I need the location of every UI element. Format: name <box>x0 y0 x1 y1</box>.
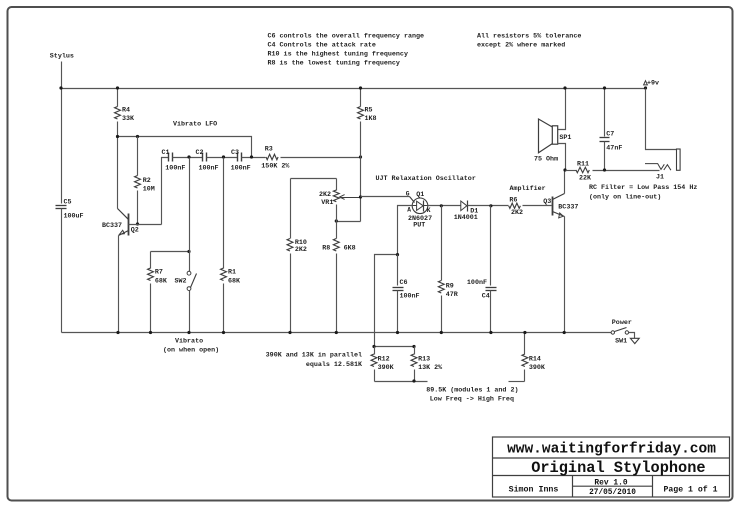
capacitor C6 <box>397 255 399 286</box>
svg-text:Original Stylophone: Original Stylophone <box>531 459 705 477</box>
wire R3 to R5 node <box>281 157 361 159</box>
svg-text:100uF: 100uF <box>64 213 84 221</box>
svg-text:C6 controls the overall freque: C6 controls the overall frequency range <box>268 33 425 41</box>
wire VR1 top link <box>291 178 337 180</box>
svg-text:J1: J1 <box>656 174 664 182</box>
wire D1 to R6 <box>468 205 509 207</box>
wire R5 bottom to VR1 bottom <box>337 221 361 223</box>
svg-text:Low Freq -> High Freq: Low Freq -> High Freq <box>430 396 514 404</box>
jack J1 <box>677 149 681 170</box>
svg-text:Vibrato LFO: Vibrato LFO <box>173 121 217 129</box>
wire speaker top <box>558 89 566 130</box>
svg-text:100nF: 100nF <box>231 165 251 173</box>
wire Q3 emitter to rail <box>564 217 566 333</box>
resistor R3 <box>266 154 278 159</box>
capacitor C2 <box>202 153 204 162</box>
svg-text:Page 1 of 1: Page 1 of 1 <box>663 485 717 495</box>
svg-text:PUT: PUT <box>413 222 425 230</box>
wire Q2 base line <box>129 224 162 226</box>
svg-text:BC337: BC337 <box>558 204 578 212</box>
svg-text:1N4001: 1N4001 <box>454 214 478 222</box>
wire stylus vertical upper <box>61 62 63 204</box>
svg-text:2K2: 2K2 <box>511 209 523 217</box>
svg-text:1K8: 1K8 <box>365 115 377 123</box>
capacitor C3 <box>237 153 239 162</box>
svg-text:(only on line-out): (only on line-out) <box>589 194 661 202</box>
svg-text:SW2: SW2 <box>175 278 187 286</box>
svg-text:All resistors 5% tolerance: All resistors 5% tolerance <box>477 33 581 41</box>
resistor R2 <box>137 137 139 176</box>
svg-text:R1: R1 <box>228 269 236 277</box>
switch SW2 <box>189 158 191 272</box>
resistor R14 <box>524 333 526 355</box>
svg-text:390K: 390K <box>378 364 395 372</box>
svg-text:Amplifier: Amplifier <box>510 185 546 193</box>
svg-text:R2: R2 <box>143 177 151 185</box>
svg-text:75 Ohm: 75 Ohm <box>534 156 558 164</box>
svg-text:47nF: 47nF <box>606 144 622 152</box>
svg-text:Q1: Q1 <box>416 191 424 199</box>
svg-text:R14: R14 <box>529 356 541 364</box>
svg-text:C2: C2 <box>196 149 204 157</box>
svg-text:390K: 390K <box>529 364 546 372</box>
svg-text:R10 is the highest tuning freq: R10 is the highest tuning frequency <box>268 51 408 59</box>
svg-text:68K: 68K <box>155 278 168 286</box>
resistor R8 <box>336 222 338 239</box>
resistor R13 <box>414 347 416 355</box>
svg-text:C4: C4 <box>482 293 490 301</box>
diode D1 1N4001 <box>461 201 467 211</box>
svg-text:100nF: 100nF <box>467 279 487 287</box>
capacitor C4 <box>490 206 492 286</box>
svg-text:89.5K (modules 1 and 2): 89.5K (modules 1 and 2) <box>426 387 518 395</box>
wire LFO feedback line <box>118 137 252 158</box>
svg-text:R12: R12 <box>378 356 390 364</box>
node A timing wire <box>375 255 398 347</box>
svg-text:100nF: 100nF <box>199 165 219 173</box>
svg-text:www.waitingforfriday.com: www.waitingforfriday.com <box>507 442 716 458</box>
switch SW1 <box>611 331 614 334</box>
resistor R5 <box>360 89 362 107</box>
resistor R4 <box>117 89 119 107</box>
wire gate line <box>361 196 410 198</box>
svg-text:C1: C1 <box>162 149 170 157</box>
wire ladder bottom stub left <box>375 381 428 383</box>
power +9v <box>644 81 648 85</box>
wire R7-SW2 link <box>151 251 190 253</box>
svg-text:R8 is the lowest tuning freque: R8 is the lowest tuning frequency <box>268 60 400 68</box>
resistor R1 <box>223 158 225 269</box>
svg-text:6K8: 6K8 <box>344 245 356 253</box>
svg-text:27/05/2010: 27/05/2010 <box>589 489 636 497</box>
resistor R6 <box>509 203 521 208</box>
svg-text:except 2% where marked: except 2% where marked <box>477 42 565 50</box>
ground <box>629 333 635 339</box>
svg-text:33K: 33K <box>122 115 135 123</box>
svg-text:BC337: BC337 <box>102 222 122 230</box>
svg-text:+9v: +9v <box>647 80 659 88</box>
svg-text:2K2: 2K2 <box>319 191 331 199</box>
svg-text:100nF: 100nF <box>165 165 185 173</box>
svg-text:G: G <box>406 191 410 198</box>
svg-text:A: A <box>407 207 411 214</box>
capacitor C7 <box>604 89 606 137</box>
svg-text:22K: 22K <box>579 175 592 183</box>
svg-text:C4 Controls the attack rate: C4 Controls the attack rate <box>268 42 376 50</box>
svg-text:R9: R9 <box>446 283 454 291</box>
svg-text:C3: C3 <box>231 149 239 157</box>
svg-text:13K 2%: 13K 2% <box>418 364 443 372</box>
svg-text:VR1: VR1 <box>321 199 333 207</box>
transistor Q2 BC337 <box>128 214 130 236</box>
svg-text:Stylus: Stylus <box>50 53 74 61</box>
wire speaker bottom <box>558 144 566 171</box>
transistor Q1 2N6027 PUT <box>412 198 428 214</box>
capacitor C5 <box>56 205 67 207</box>
svg-text:Q3: Q3 <box>543 198 551 206</box>
svg-text:UJT Relaxation Oscillator: UJT Relaxation Oscillator <box>376 175 476 183</box>
wire +9v to jack sleeve <box>646 89 677 150</box>
resistor R9 <box>441 206 443 281</box>
wire R6 to Q3 base <box>523 205 552 207</box>
wire Q3 collector <box>564 171 566 194</box>
capacitor C1 <box>168 153 170 162</box>
svg-text:390K and 13K in parallel: 390K and 13K in parallel <box>266 352 362 360</box>
svg-text:C5: C5 <box>64 199 72 207</box>
svg-text:R6: R6 <box>509 197 517 205</box>
svg-text:10M: 10M <box>143 186 155 194</box>
svg-text:Simon Inns: Simon Inns <box>509 485 559 495</box>
title block <box>493 437 730 497</box>
svg-text:R7: R7 <box>155 269 163 277</box>
svg-text:Power: Power <box>612 319 632 327</box>
wire tuning ladder top <box>375 346 415 348</box>
resistor R11 <box>566 170 577 172</box>
wire Q1 cathode to D1 <box>428 205 461 207</box>
svg-text:equals 12.581K: equals 12.581K <box>306 361 363 369</box>
svg-text:2K2: 2K2 <box>295 246 307 254</box>
wire top rail +9v <box>62 88 646 90</box>
svg-text:SW1: SW1 <box>615 338 627 346</box>
svg-text:68K: 68K <box>228 278 241 286</box>
wire Q2 emitter to rail <box>118 236 120 333</box>
wire C2-C3 <box>207 157 238 159</box>
svg-text:Vibrato: Vibrato <box>175 338 203 346</box>
wire C3-R3 <box>242 157 266 159</box>
svg-text:SP1: SP1 <box>559 134 571 142</box>
wire bottom rail <box>62 332 612 334</box>
svg-text:Rev 1.0: Rev 1.0 <box>594 478 627 487</box>
wire ladder bottom stub right <box>509 381 525 383</box>
svg-text:R4: R4 <box>122 107 130 115</box>
svg-text:K: K <box>427 207 431 214</box>
svg-text:47R: 47R <box>446 291 458 299</box>
svg-text:(on when open): (on when open) <box>163 347 219 355</box>
resistor R7 <box>150 252 152 269</box>
speaker SP1 <box>552 126 557 144</box>
wire Q1 anode <box>398 206 413 255</box>
svg-text:R13: R13 <box>418 356 430 364</box>
wire C1-C2 <box>173 157 203 159</box>
svg-text:R5: R5 <box>365 107 373 115</box>
potentiometer VR1 <box>336 179 338 191</box>
wire stylus vertical lower <box>61 209 63 333</box>
svg-text:Q2: Q2 <box>131 227 139 235</box>
svg-text:150K 2%: 150K 2% <box>261 162 290 170</box>
svg-text:RC Filter = Low Pass 154 Hz: RC Filter = Low Pass 154 Hz <box>589 184 697 192</box>
resistor R12 <box>374 347 376 355</box>
resistor R10 <box>290 179 292 239</box>
svg-text:R11: R11 <box>577 160 589 168</box>
svg-text:R3: R3 <box>265 145 273 153</box>
svg-text:C7: C7 <box>606 130 614 138</box>
wire C1 left drop <box>162 158 169 225</box>
svg-text:100nF: 100nF <box>400 293 420 301</box>
svg-text:C6: C6 <box>400 279 408 287</box>
svg-text:R8: R8 <box>322 245 330 253</box>
transistor Q3 BC337 <box>552 197 554 216</box>
